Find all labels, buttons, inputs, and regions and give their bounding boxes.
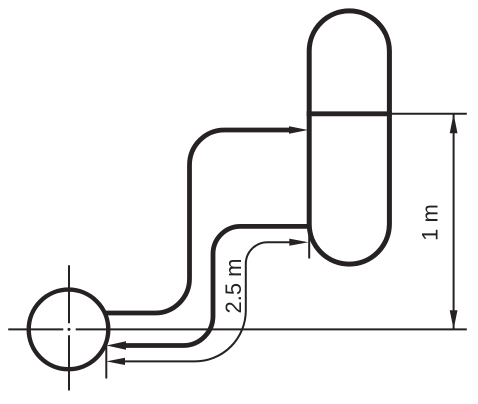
dimension leader 2.5 m (thin line along pipe) — [125, 242, 290, 361]
pump centerline vertical — [68, 265, 70, 390]
dimension line 1 m — [453, 114, 455, 330]
2.5 m arrow at pump — [106, 358, 125, 365]
vessel (capsule tank) — [309, 11, 389, 264]
1 m arrow up — [450, 114, 458, 133]
pump center dot — [68, 328, 71, 331]
level extension line (thin, to dimension) — [392, 113, 467, 115]
extension tick at vessel wall — [308, 227, 310, 259]
suction pipe — [125, 226, 309, 345]
1 m arrow down — [450, 310, 458, 329]
2.5 m arrow at vessel — [289, 239, 308, 246]
svg-text:1 m: 1 m — [417, 204, 442, 241]
extension tick at pump — [105, 339, 107, 379]
suction arrow into pump — [107, 341, 127, 349]
liquid level line (thick, inside vessel) — [307, 111, 392, 116]
pump P1 circle — [29, 290, 109, 370]
discharge arrow into vessel — [289, 126, 308, 134]
svg-text:2.5 m: 2.5 m — [221, 258, 246, 313]
discharge pipe — [106, 130, 293, 313]
pump centerline horizontal — [8, 328, 467, 330]
